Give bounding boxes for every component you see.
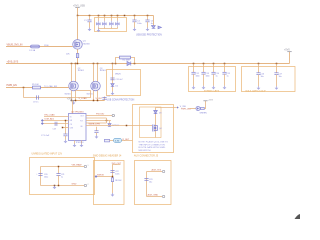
svg-text:10u: 10u (279, 76, 282, 78)
wire: flag to IC top (72, 101, 74, 114)
svg-text:1u: 1u (61, 177, 63, 179)
wire: top (147, 171, 163, 173)
wire: left (97, 176, 113, 178)
svg-text:+3V3: +3V3 (208, 100, 214, 102)
svg-text:SWD DEBUG HEADER J4: SWD DEBUG HEADER J4 (93, 154, 122, 157)
capacitor C1 (84, 16, 92, 28)
resistor R5 (32, 84, 41, 89)
capacitor C19 (94, 127, 98, 135)
wire: vertical from rail to Q1 (77, 16, 79, 40)
svg-text:100n: 100n (137, 23, 141, 25)
resistor R1 (76, 54, 79, 58)
wire: branch down (23, 88, 25, 98)
svg-text:C9 1n: C9 1n (33, 101, 38, 103)
svg-text:GREEN: GREEN (200, 113, 208, 115)
svg-text:ILIM: ILIM (70, 128, 74, 130)
wire: right pin 1 (86, 115, 112, 117)
capacitor C9 (33, 95, 38, 103)
ground (73, 144, 77, 148)
wire: output rail (72, 100, 105, 102)
svg-text:BULK CAPS 2x10uF: BULK CAPS 2x10uF (246, 90, 267, 93)
resistor R9 (201, 107, 205, 109)
svg-text:UNREGULATED INPUT 12V: UNREGULATED INPUT 12V (32, 153, 63, 156)
svg-text:USB ESD PROTECTION: USB ESD PROTECTION (136, 35, 162, 37)
svg-text:EN_LOAD: EN_LOAD (45, 114, 56, 117)
power flag +3V3 small (203, 100, 213, 102)
svg-text:1u: 1u (227, 75, 229, 77)
power flag +5V0_USB (73, 4, 85, 7)
capacitor C16 (256, 64, 264, 87)
wire: output (156, 107, 178, 109)
resistor R2 (120, 56, 131, 62)
wire: Q2 source to Q3 gate (76, 90, 91, 92)
wire: right pin 2 (86, 117, 107, 119)
net tag ILIM (114, 138, 122, 142)
svg-text:100u: 100u (44, 177, 48, 179)
svg-text:SI2301: SI2301 (78, 70, 84, 72)
svg-text:+5V0_USB: +5V0_USB (73, 4, 85, 7)
svg-text:1: 1 (88, 165, 89, 167)
svg-text:2: 2 (88, 184, 89, 186)
svg-text:BYPASS CAPS: BYPASS CAPS (204, 89, 220, 92)
LED D7 (196, 106, 200, 110)
diode D3 (154, 111, 158, 114)
svg-text:R8 10K: R8 10K (115, 180, 122, 182)
svg-text:GATE_DRV: GATE_DRV (89, 123, 101, 126)
diode D4 on bus (127, 61, 131, 65)
svg-text:1u: 1u (216, 75, 218, 77)
svg-text:AUX_5V0: AUX_5V0 (152, 168, 162, 171)
capacitor C11 (110, 78, 114, 80)
ground (111, 193, 115, 197)
wire: Q2 drains (71, 64, 73, 82)
svg-text:F1 2A: F1 2A (30, 49, 36, 52)
svg-text:SI2301: SI2301 (65, 94, 71, 96)
wire: up to flag (204, 101, 205, 109)
wire: left vertical (40, 167, 42, 186)
wire: left pin 1 (44, 116, 69, 118)
svg-text:R2 100K: R2 100K (123, 60, 131, 62)
junction dots on bus (71, 63, 278, 65)
svg-text:ILIM_ADJ: ILIM_ADJ (45, 117, 55, 120)
wire: flag stub down (77, 8, 79, 16)
wire: VBUS input (6, 46, 73, 48)
transistor Q3 (91, 81, 101, 91)
svg-text:SI2301: SI2301 (100, 70, 106, 72)
svg-text:C18: C18 (53, 129, 56, 131)
wire: vertical (146, 172, 148, 197)
wire: right pin 4 (86, 122, 107, 124)
svg-text:GND: GND (72, 183, 77, 185)
wire: Q3 drains (93, 64, 95, 82)
wire: drop to box (112, 64, 114, 70)
wire: left pin 3 (43, 123, 69, 125)
svg-text:MIN WIDTH.: MIN WIDTH. (139, 150, 152, 152)
TVS diode array box D1 (95, 16, 127, 32)
wire: right pin 3 (86, 120, 111, 122)
svg-text:FLT: FLT (80, 121, 83, 123)
capacitor C2 (132, 16, 141, 28)
IC U2 body (69, 114, 87, 141)
ground (53, 186, 57, 190)
capacitor C22 (110, 171, 114, 173)
svg-text:Q4: Q4 (159, 128, 162, 130)
pin (84, 165, 86, 167)
svg-text:+5V0: +5V0 (284, 49, 290, 52)
svg-text:R5 10K: R5 10K (32, 84, 39, 86)
transistor Q4 (153, 125, 158, 132)
wire: left pin 4 (63, 127, 69, 129)
svg-text:V_LOAD: V_LOAD (79, 97, 88, 100)
svg-text:TPS2553: TPS2553 (76, 142, 84, 144)
wire: drop at right end of rail (153, 16, 155, 26)
capacitor C20 polarized (36, 174, 48, 179)
diode D5 (152, 26, 156, 29)
svg-text:3V3_OUT: 3V3_OUT (112, 163, 122, 165)
wire: inner vertical (155, 108, 157, 138)
svg-text:ILIM: ILIM (115, 141, 119, 143)
capacitor C23 (144, 179, 152, 184)
svg-text:10u: 10u (261, 76, 264, 78)
svg-text:SI2301: SI2301 (87, 94, 93, 96)
node junction dots on top rail (77, 15, 149, 17)
wire (190, 108, 196, 110)
resistor R8 (111, 178, 113, 182)
wire: bottom (41, 185, 85, 187)
svg-text:VIN_RAW: VIN_RAW (72, 163, 83, 166)
wire: Q1 to bus (77, 49, 79, 63)
power flag +5V0 (284, 49, 292, 52)
svg-text:D3: D3 (159, 112, 161, 114)
ground (146, 28, 150, 32)
ground (64, 140, 68, 144)
wire: bus rise to flag (289, 52, 291, 64)
no-connect (112, 114, 114, 116)
corner mark (295, 214, 301, 219)
svg-text:VBUS_5V0_IN: VBUS_5V0_IN (7, 43, 23, 46)
wire: bridge stubs (116, 58, 120, 64)
connector box J1 (107, 70, 141, 96)
wire: vertical (113, 165, 121, 194)
transistor Q2 (69, 81, 79, 91)
svg-text:D2: D2 (116, 86, 118, 88)
capacitor C17 (274, 64, 282, 87)
svg-text:10u: 10u (149, 182, 152, 184)
svg-text:ROUTE GATE WITH 10MIL: ROUTE GATE WITH 10MIL (139, 146, 167, 149)
wire: Q2/Q3 bottoms (71, 90, 73, 100)
wire: +5V bus (6, 63, 290, 65)
svg-text:THE INPUT CONNECTOR.: THE INPUT CONNECTOR. (139, 144, 166, 146)
svg-text:VBUS: VBUS (115, 74, 121, 76)
capacitor C3 (145, 16, 155, 28)
IC bottom stubs and grounds (74, 141, 76, 144)
wire: vertical tie (106, 118, 108, 123)
capacitor C10 (102, 95, 110, 100)
svg-text:TO_LOAD_SW: TO_LOAD_SW (44, 85, 57, 88)
svg-text:AUX CONNECTOR J5: AUX CONNECTOR J5 (134, 154, 159, 157)
ground (133, 28, 137, 32)
wire: top (41, 166, 85, 168)
svg-text:NOTE: PLACE Q4 CLOSE TO: NOTE: PLACE Q4 CLOSE TO (139, 141, 169, 144)
net flag V_SW_OUT (177, 106, 186, 109)
svg-text:100n: 100n (206, 75, 210, 77)
wire: vertical with cap (65, 121, 67, 135)
svg-text:PGOOD: PGOOD (96, 114, 105, 116)
ground (111, 92, 115, 96)
fuse F1 (30, 45, 50, 52)
svg-text:100n: 100n (196, 75, 200, 77)
capacitor C18 (53, 122, 57, 131)
power flag +3V3 (67, 99, 75, 101)
capacitor C14 (211, 64, 219, 86)
svg-text:100n: 100n (115, 174, 119, 176)
svg-text:C11 4u7: C11 4u7 (116, 79, 123, 81)
net arrow VCONN (158, 26, 162, 29)
diode D2 (111, 84, 114, 87)
pin (84, 184, 86, 186)
ground (72, 101, 76, 105)
svg-text:R_SET: R_SET (123, 139, 130, 141)
wire: gate drive (86, 125, 152, 127)
resistor R7 (105, 139, 110, 142)
ground (97, 29, 101, 33)
wire: lower gate link (24, 91, 91, 98)
svg-text:PWR_EN: PWR_EN (7, 84, 18, 87)
svg-text:+3V3: +3V3 (67, 99, 73, 101)
zener D6 (108, 121, 111, 127)
capacitor C21 (56, 167, 64, 186)
svg-text:AUX_GND: AUX_GND (148, 193, 159, 196)
ground (88, 28, 92, 32)
wire: internal vertical (112, 70, 114, 92)
svg-text:V_OUT: V_OUT (96, 98, 104, 100)
svg-text:C7 0.1uF: C7 0.1uF (41, 135, 50, 137)
svg-text:U2 TPS2553: U2 TPS2553 (71, 111, 84, 113)
svg-text:SWDIO: SWDIO (97, 174, 104, 176)
wire (110, 140, 133, 142)
transistor Q1 (73, 40, 83, 50)
capacitor C15 (222, 64, 230, 86)
capacitor C12 (191, 64, 199, 86)
ground (80, 144, 84, 148)
svg-text:SI2333: SI2333 (83, 44, 90, 46)
wire: left pin 2 (43, 120, 69, 122)
svg-text:+5V0_SYS: +5V0_SYS (7, 60, 19, 63)
node junction (23, 87, 25, 89)
wire: top rail (78, 15, 154, 17)
svg-text:USB CONN PROTECTION: USB CONN PROTECTION (107, 99, 135, 101)
wire: gate input (6, 87, 69, 89)
wire: bottom (147, 196, 163, 198)
svg-text:OUT: OUT (80, 115, 84, 117)
capacitor C13 (201, 64, 209, 86)
